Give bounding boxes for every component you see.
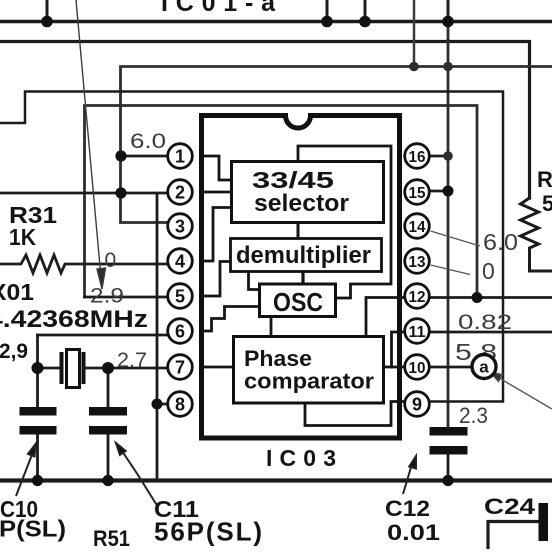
pin 14 (405, 214, 430, 239)
svg-text:9: 9 (412, 395, 422, 415)
node bus C11 (102, 475, 113, 486)
wire pin5 to pin12 loop across top y=105 (85, 106, 478, 298)
internal wire phase comparator bottom U to pin 9 (305, 402, 405, 426)
internal wire pin 11 down to pin 10 wire (392, 332, 406, 367)
svg-text:7: 7 (175, 358, 185, 378)
svg-text:comparator: comparator (244, 369, 374, 394)
pin 12 (405, 284, 430, 309)
leader arrow C10 (16, 444, 36, 496)
wire vertical x=157 from pin2 wire down to ground bus (156, 193, 159, 478)
svg-text:R: R (537, 167, 552, 192)
internal wire selector top loop to OSC right (298, 146, 391, 298)
svg-text:6: 6 (175, 322, 185, 342)
wire vertical x=448 from line1 node down to C12 (447, 22, 450, 428)
wire pin 6 external (38, 334, 169, 337)
svg-text:a: a (479, 358, 489, 377)
wire pin 15 external (430, 190, 448, 193)
svg-text:15: 15 (409, 185, 426, 202)
pin 8 (168, 392, 193, 417)
node on line1 x=327 (321, 16, 333, 28)
internal wire demultiplier to OSC (301, 272, 304, 285)
node bus C12 (442, 475, 453, 486)
svg-text:16: 16 (409, 149, 426, 166)
svg-text:3: 3 (175, 217, 185, 237)
svg-text:C24: C24 (484, 494, 536, 519)
internal wire selector bottom to demultiplier (297, 223, 300, 239)
svg-text:4.42368MHz: 4.42368MHz (0, 306, 148, 333)
node pin12 wire x=477 (472, 292, 483, 303)
svg-text:2.3: 2.3 (459, 403, 488, 428)
wire stub up from node at x=448 (447, 0, 450, 22)
svg-text:11: 11 (409, 324, 426, 341)
block demultiplier (231, 239, 382, 272)
capacitor C24 wire (488, 522, 539, 550)
svg-text:OSC: OSC (273, 287, 323, 317)
wire pin 1 external (121, 155, 168, 158)
resistor R31 zigzag and pin 4 net (0, 255, 168, 273)
svg-text:56P(SL): 56P(SL) (154, 517, 262, 547)
wire pin 2 net from left edge (0, 192, 168, 195)
wire pin 11 external to right edge (430, 331, 552, 334)
internal wire demultiplier bottom left stub to OSC (249, 272, 260, 290)
svg-text:R51: R51 (93, 526, 130, 549)
crystal X01 (38, 350, 86, 388)
wire vertical from top at x=414 down to line 3 (413, 0, 416, 67)
internal wire phase comparator top to pin 12 (366, 298, 405, 337)
svg-text:5: 5 (175, 287, 185, 307)
leader pin 13 to 0 label (431, 265, 471, 275)
wire pin 8 external (157, 403, 168, 406)
leader arrow diagonal to crystal (76, 0, 106, 289)
svg-text:2.7: 2.7 (117, 349, 147, 372)
wire crystal right lead to pin 7 (84, 367, 169, 370)
PINS (168, 144, 430, 417)
internal wire pin 6 staircase to OSC (203, 307, 260, 332)
pin 7 (168, 355, 193, 380)
test point circle a (472, 355, 496, 379)
svg-text:P(SL): P(SL) (0, 516, 66, 542)
pin 3 (168, 214, 193, 239)
internal wire pin 2 to selector (203, 191, 232, 194)
svg-text:2.9: 2.9 (90, 285, 124, 308)
wire line 3 with corner down at x=120.5 and branch to pin 3 (121, 67, 552, 223)
internal wire pin 7 to phase comparator (203, 366, 234, 369)
capacitor C10 (20, 407, 57, 435)
internal wire pin 5 to demultiplier (203, 262, 231, 297)
pin 5 (168, 284, 193, 309)
selector block internal wire from pin 1 (203, 156, 232, 180)
block OSC (260, 284, 336, 317)
pin 13 (405, 249, 430, 274)
internal wire pin 10 to phase comparator right (384, 366, 406, 369)
node bus C10 (32, 475, 43, 486)
node pin2 wire x=121 (115, 187, 126, 198)
svg-text:2,9: 2,9 (0, 340, 28, 363)
svg-text:13: 13 (409, 254, 426, 271)
leader pin 14 to 6.0 label (431, 231, 481, 246)
wire stub up from node at x=47 (46, 0, 49, 22)
node on line1 x=365 (359, 16, 371, 28)
svg-text:5: 5 (542, 191, 552, 216)
wire horizontal line 2 with corner down to resistor lead (0, 42, 530, 199)
svg-text:0.01: 0.01 (387, 520, 440, 545)
node pin15 wire x=448 (443, 186, 454, 197)
wire pin 10 external to test point circle (430, 366, 472, 369)
wire pin 16 external (430, 155, 448, 158)
svg-text:0: 0 (105, 249, 117, 272)
pin 9 (405, 392, 430, 417)
leader arrow C12 (403, 456, 416, 494)
node on line1 x=448 (442, 16, 454, 28)
pin 6 (168, 319, 193, 344)
node pin1 wire x=121 (115, 150, 126, 161)
svg-text:12: 12 (409, 289, 426, 306)
node pin16 wire x=448 (443, 151, 453, 161)
internal wire OSC bottom to phase comparator (270, 317, 273, 337)
ground bus bottom (0, 478, 552, 482)
svg-text:14: 14 (409, 219, 426, 236)
pin 16 (405, 144, 430, 169)
node crystal right x=108 (102, 362, 114, 374)
capacitor C24 plate (539, 503, 549, 541)
pin 11 (405, 319, 430, 344)
wire pin 9 loop from left edge around right side (0, 92, 503, 402)
node pin8 wire x=157 (152, 399, 163, 410)
svg-text:8: 8 (175, 395, 185, 415)
svg-text:6.0: 6.0 (483, 229, 518, 255)
svg-text:0: 0 (482, 258, 495, 284)
wire stub up from node at x=365 (364, 0, 367, 22)
block Phase comparator (234, 337, 384, 404)
internal wire pin 4 to selector (203, 208, 232, 262)
capacitor C12 (430, 427, 468, 455)
svg-text:2: 2 (175, 183, 185, 203)
pin 2 (168, 180, 193, 205)
wire pin 12 external to right edge (430, 296, 552, 299)
node crystal left x=37.5 (32, 362, 44, 374)
pin 15 (405, 180, 430, 205)
svg-text:10: 10 (409, 360, 426, 377)
svg-text:1: 1 (175, 147, 185, 167)
svg-text:C12: C12 (385, 496, 430, 521)
svg-text:selector: selector (254, 190, 349, 217)
svg-text:6.0: 6.0 (130, 130, 166, 153)
node line3 x=448 (443, 62, 453, 72)
svg-text:0.82: 0.82 (458, 311, 512, 334)
wire C12 bottom lead (447, 455, 450, 480)
wire crystal left branch down to C10 and bus (36, 335, 39, 479)
wire top bus line 1 (0, 20, 552, 23)
leader arrow to test point (490, 372, 552, 409)
pin 10 (405, 355, 430, 380)
block 33/45 selector (232, 162, 384, 223)
pin 4 (168, 249, 193, 274)
leader arrow C11 (116, 443, 158, 507)
wire stub up from node at x=327 (326, 0, 329, 22)
svg-text:demultiplier: demultiplier (236, 242, 371, 269)
node on line1 x=47 (41, 16, 53, 28)
svg-text:4: 4 (175, 252, 185, 272)
svg-text:Phase: Phase (244, 346, 312, 371)
pin 1 (168, 144, 193, 169)
wire C11 leads (107, 368, 110, 479)
svg-text:X01: X01 (0, 279, 34, 305)
wire pin 5 external (85, 296, 169, 299)
capacitor C11 (89, 407, 127, 435)
resistor R5x zigzag right edge (521, 198, 552, 271)
svg-text:1K: 1K (9, 224, 36, 250)
node line3 x=414 (409, 62, 419, 72)
IC03 package outline with notch (202, 116, 400, 439)
